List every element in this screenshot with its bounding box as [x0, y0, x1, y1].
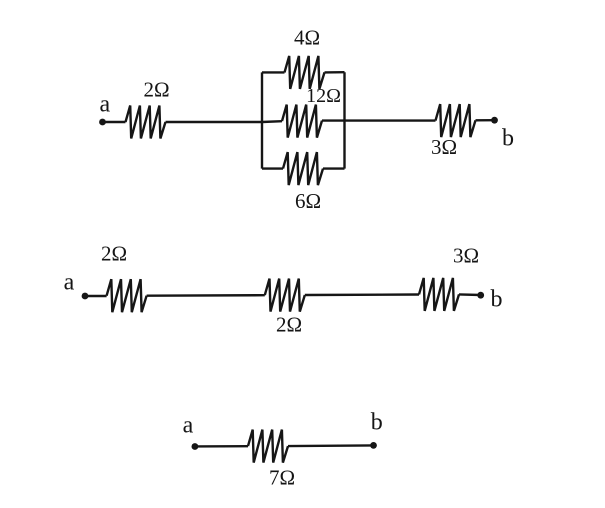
svg-text:2Ω: 2Ω [101, 241, 127, 265]
svg-text:4Ω: 4Ω [294, 25, 320, 49]
svg-text:2Ω: 2Ω [276, 313, 302, 337]
svg-text:a: a [183, 413, 194, 439]
svg-text:b: b [502, 125, 514, 151]
svg-text:a: a [64, 270, 75, 296]
svg-text:12Ω: 12Ω [306, 85, 341, 107]
svg-text:6Ω: 6Ω [295, 189, 321, 213]
svg-text:3Ω: 3Ω [453, 244, 479, 268]
svg-text:7Ω: 7Ω [269, 466, 295, 490]
svg-text:a: a [99, 92, 110, 118]
svg-text:2Ω: 2Ω [143, 78, 169, 102]
svg-text:b: b [371, 410, 383, 436]
svg-text:3Ω: 3Ω [431, 135, 457, 159]
svg-text:b: b [491, 286, 503, 312]
